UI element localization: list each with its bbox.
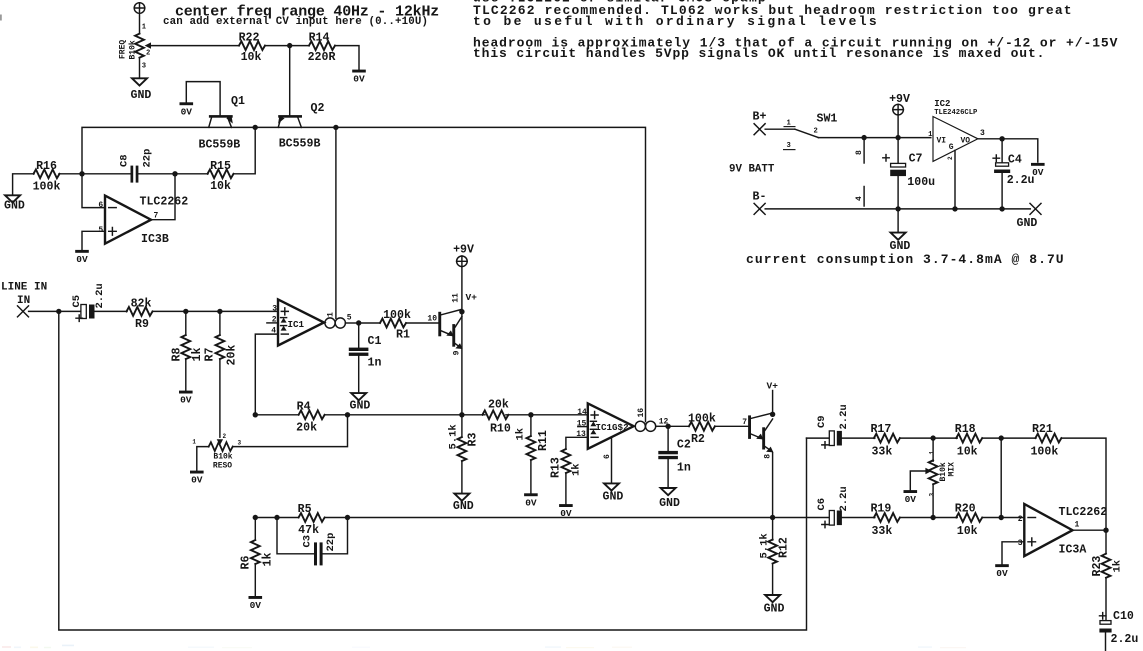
note: faint page remnants at bottom edge (2, 645, 966, 649)
wire node to R2 (668, 425, 689, 427)
node C7/B- (895, 206, 900, 211)
ground 0V below R6 (249, 596, 263, 611)
svg-text:B-: B- (753, 191, 767, 204)
svg-text:C2: C2 (677, 439, 691, 452)
wire switch to IC2 VI (818, 137, 930, 139)
ground 0V at IC2 out (1031, 163, 1045, 178)
resistor R17 33k (870, 423, 899, 459)
svg-text:4: 4 (855, 196, 864, 201)
node bias rail / IC1 pin1 (333, 125, 338, 130)
svg-text:GND: GND (1017, 217, 1038, 230)
connector stub pin 4 (855, 187, 864, 207)
svg-text:3: 3 (1018, 539, 1023, 548)
wire R21 to output node (1061, 438, 1106, 530)
wire C6 to R19 (842, 517, 875, 519)
svg-text:R9: R9 (135, 318, 149, 331)
wire IC2 output (978, 139, 1038, 162)
resistor R5 47k (298, 503, 325, 537)
resistor R18 10k (955, 423, 982, 459)
capacitor C6 2.2u (816, 486, 850, 527)
svg-text:IN: IN (17, 295, 30, 307)
ground 0V below IC3B (75, 250, 89, 265)
node C9 row / MIX top (930, 435, 935, 440)
svg-text:this circuit handles 5Vpp sign: this circuit handles 5Vpp signals OK unt… (473, 46, 1045, 61)
svg-text:2: 2 (223, 433, 227, 440)
resistor R16 100k (33, 160, 61, 194)
svg-text:TLE2426CLP: TLE2426CLP (934, 109, 978, 117)
wire bottom row left (255, 517, 829, 519)
wire RESO pin1 to 0V (197, 447, 209, 471)
wire LINE IN to C5 (29, 310, 81, 312)
node CV line / Q2 base (287, 43, 292, 48)
node R16/C8/IC3B (79, 171, 84, 176)
power +9V (889, 93, 910, 115)
node IC2 out / C4 (999, 136, 1004, 141)
wire IC3B output (151, 174, 175, 220)
svg-text:R5: R5 (298, 503, 312, 516)
wire C8 to R15 (138, 173, 208, 175)
node C4/B- (999, 206, 1004, 211)
svg-text:10: 10 (427, 314, 437, 323)
svg-text:R3: R3 (466, 433, 479, 447)
node bottom row / MIX bottom (930, 515, 935, 520)
resistor R10 20k (482, 398, 510, 435)
svg-text:R22: R22 (239, 32, 260, 45)
svg-text:GND: GND (764, 603, 785, 616)
capacitor C3 22p (277, 518, 348, 566)
svg-text:R21: R21 (1032, 423, 1053, 436)
wire R15 up to bias rail (234, 127, 256, 173)
ground GND left of R16 (4, 195, 25, 212)
svg-text:SW1: SW1 (817, 113, 838, 126)
resistor R20 10k (955, 503, 982, 539)
terminal CV input (134, 3, 145, 14)
svg-text:C9: C9 (816, 415, 828, 428)
potentiometer FREQ B10k (119, 24, 152, 71)
node bottom row / C3 left (274, 515, 279, 520)
power +9V above buffer (453, 243, 474, 266)
svg-text:G: G (949, 143, 954, 152)
node R9/R8 (183, 309, 188, 314)
wire R18 to R21 (982, 437, 1036, 439)
wire feedback box (59, 311, 807, 630)
note: small mark at left edge (0, 15, 2, 21)
svg-text:5: 5 (98, 226, 103, 235)
svg-text:R10: R10 (490, 422, 511, 435)
svg-text:1k: 1k (1112, 560, 1124, 573)
node bottom row / feedback (253, 515, 258, 520)
node buffer2 / R12 / bottom row (770, 515, 775, 520)
svg-text:2: 2 (947, 156, 954, 160)
svg-text:100u: 100u (907, 176, 935, 189)
svg-text:10k: 10k (957, 525, 978, 538)
wire Q2 base from CV node (289, 46, 291, 116)
ground 0V at MIX wiper (904, 490, 918, 505)
resistor R15 10k (208, 160, 234, 193)
node feedback box left (56, 309, 61, 314)
svg-text:Q1: Q1 (231, 95, 245, 108)
svg-text:R1: R1 (396, 329, 410, 342)
wire B- rail (765, 208, 1030, 210)
node buffer2 collector (770, 412, 775, 417)
svg-text:TLC2262: TLC2262 (1059, 506, 1108, 519)
op-amp IC3B TLC2262 (98, 196, 188, 246)
wire R19 to R20 (900, 517, 957, 519)
transistor buffer Q IC1 pins 10/11/9 (427, 292, 477, 355)
wire main bias rail (82, 127, 646, 421)
wire R1 to buffer (406, 322, 438, 324)
svg-text:R2: R2 (691, 433, 705, 446)
svg-text:1k: 1k (191, 348, 204, 362)
svg-text:11: 11 (452, 293, 461, 303)
resistor R13 1k (549, 437, 587, 504)
svg-text:3: 3 (272, 305, 277, 314)
svg-text:V+: V+ (466, 292, 478, 303)
ground 0V right of R14 (352, 70, 366, 85)
node IC1 out / C1 / R1 (356, 320, 361, 325)
node +9V rail (895, 135, 900, 140)
svg-text:20k: 20k (296, 421, 317, 434)
svg-text:C8: C8 (119, 154, 131, 167)
svg-text:2.2u: 2.2u (838, 486, 850, 511)
node bias rail / R15 (253, 125, 258, 130)
svg-text:R20: R20 (955, 503, 976, 516)
op-amp IC1 OTA (267, 299, 352, 345)
wire IC1 inverting input (255, 334, 278, 415)
svg-text:IC3A: IC3A (1059, 543, 1087, 556)
resistor R19 33k (870, 503, 899, 539)
svg-text:1k: 1k (571, 463, 583, 476)
svg-text:10k: 10k (957, 446, 978, 459)
svg-text:1: 1 (326, 312, 335, 317)
node C8/R15/IC3B out (172, 171, 177, 176)
ground 0V at RESO (190, 471, 204, 486)
resistor R4 20k (296, 400, 324, 434)
svg-text:2.2u: 2.2u (838, 404, 850, 429)
op-amp IC3A TLC2262 (1018, 504, 1108, 556)
node switch/stub8 (861, 135, 866, 140)
node middle row / RESO (345, 412, 350, 417)
wire IC3A non-inverting to 0V (1002, 542, 1024, 564)
svg-text:+9V: +9V (453, 243, 474, 256)
svg-text:GND: GND (350, 400, 371, 413)
capacitor C7 100u (883, 153, 935, 189)
svg-text:C7: C7 (909, 153, 923, 166)
capacitor C5 2.2u (71, 283, 106, 321)
potentiometer MIX B10k (910, 438, 956, 517)
svg-text:R4: R4 (297, 400, 311, 413)
svg-text:LINE IN: LINE IN (1, 282, 47, 294)
svg-text:3: 3 (142, 63, 146, 71)
wire GND to R16 (13, 174, 34, 195)
svg-text:FREQ: FREQ (119, 40, 128, 59)
wire IC3A output (1073, 529, 1107, 531)
transistor buffer2 IC1 pins 7/8 (742, 413, 773, 459)
terminal B+ (753, 111, 767, 135)
svg-text:current consumption 3.7-4.8mA: current consumption 3.7-4.8mA @ 8.7U (746, 252, 1065, 267)
svg-text:22p: 22p (325, 533, 337, 552)
wire IC3B inverting input (82, 174, 105, 208)
svg-text:8: 8 (855, 150, 864, 155)
svg-text:9V BATT: 9V BATT (729, 164, 775, 176)
wire R17 to R18 (900, 437, 957, 439)
potentiometer RESO B10k (192, 433, 241, 471)
svg-text:16: 16 (637, 408, 646, 418)
capacitor C10 2.2u (1099, 610, 1138, 651)
svg-text:R7: R7 (204, 348, 217, 362)
svg-text:IC2: IC2 (934, 99, 950, 109)
svg-text:1: 1 (928, 131, 933, 139)
wire R9 to IC1 pin3 (153, 310, 279, 312)
svg-text:33k: 33k (871, 525, 892, 538)
svg-text:R11: R11 (537, 430, 550, 451)
ground below C7 (890, 233, 911, 253)
svg-text:B+: B+ (753, 111, 767, 124)
ground 0V below R8 (179, 391, 193, 406)
svg-text:2.2u: 2.2u (1007, 174, 1035, 187)
wire pot wiper to R22 (151, 45, 239, 47)
node output / R23 (1103, 528, 1108, 533)
wire C9 to R17 (842, 437, 875, 439)
svg-text:to be useful with ordinary sig: to be useful with ordinary signal levels (473, 14, 879, 29)
wire B+ to switch (765, 128, 795, 130)
connector stub pin 8 (855, 138, 864, 163)
ground GND below C1 (350, 393, 371, 413)
wire R22 to R14 (265, 45, 309, 47)
svg-text:C4: C4 (1008, 154, 1022, 167)
svg-text:TLC2262: TLC2262 (140, 196, 189, 209)
svg-text:BC559B: BC559B (199, 139, 241, 152)
svg-text:B10k: B10k (213, 453, 232, 462)
svg-text:RESO: RESO (213, 462, 232, 471)
svg-text:20k: 20k (225, 345, 238, 366)
svg-text:R6: R6 (240, 556, 253, 570)
svg-text:20k: 20k (488, 398, 509, 411)
transistor Q1 BC559B (186, 82, 245, 152)
svg-text:R13: R13 (549, 457, 562, 478)
wire IC2 G pin to B- (954, 150, 956, 209)
resistor R9 82k (127, 298, 153, 331)
svg-text:C5: C5 (71, 295, 83, 308)
wire node to R1 (359, 322, 380, 324)
svg-text:R15: R15 (210, 160, 231, 173)
svg-text:14: 14 (577, 408, 587, 417)
svg-text:BC559B: BC559B (279, 138, 321, 151)
capacitor C8 22p (119, 149, 154, 183)
svg-text:IC3B: IC3B (141, 233, 169, 246)
svg-text:22p: 22p (142, 149, 154, 168)
svg-text:10k: 10k (210, 180, 231, 193)
svg-text:100k: 100k (1030, 446, 1058, 459)
svg-text:R23: R23 (1091, 556, 1104, 577)
node buffer collector rail (459, 309, 464, 314)
node IC2 G/B- (952, 206, 957, 211)
wire R14 to 0V (335, 46, 359, 70)
svg-text:GND: GND (453, 500, 474, 513)
svg-text:100k: 100k (33, 181, 61, 194)
svg-text:IC1G$2: IC1G$2 (596, 422, 629, 433)
wire IC1G$2 output (656, 425, 668, 427)
svg-text:C6: C6 (816, 498, 828, 511)
node middle row / R3 (459, 412, 464, 417)
svg-text:10k: 10k (241, 51, 262, 64)
svg-text:R19: R19 (870, 503, 891, 516)
pin 3 label SW1 open contact (783, 142, 796, 150)
ground GND below R12 (764, 595, 785, 616)
svg-text:VI: VI (937, 137, 947, 146)
svg-text:1: 1 (192, 439, 196, 446)
svg-text:R8: R8 (171, 348, 184, 362)
wire +9V rail down (461, 267, 463, 415)
resistor R3 5.1k (447, 415, 479, 494)
svg-text:1n: 1n (368, 357, 382, 370)
svg-text:1k: 1k (514, 428, 526, 441)
svg-text:5.1k: 5.1k (447, 424, 459, 449)
svg-text:2: 2 (146, 50, 150, 58)
svg-text:GND: GND (603, 491, 624, 504)
op-amp IC2 TLE2426CLP rail splitter (928, 99, 985, 161)
wire R16 to C8 (59, 173, 130, 175)
svg-text:R16: R16 (36, 160, 57, 173)
svg-text:100k: 100k (688, 412, 716, 425)
svg-text:Q2: Q2 (311, 102, 325, 115)
svg-text:82k: 82k (131, 298, 152, 311)
svg-text:GND: GND (890, 240, 911, 253)
svg-text:8: 8 (763, 454, 772, 459)
svg-text:1: 1 (929, 451, 936, 455)
node IC1G$2 out / C2 / R2 (665, 424, 670, 429)
node pin2 / vertical (999, 515, 1004, 520)
ground GND below C2 (659, 488, 680, 510)
svg-text:R18: R18 (955, 423, 976, 436)
resistor R7 20k (204, 311, 239, 437)
wire buffer2 emitter down (772, 453, 774, 518)
capacitor C1 1n (349, 323, 382, 393)
resistor R2 100k (688, 412, 716, 446)
pin 1 label SW1 (784, 119, 796, 127)
svg-text:100k: 100k (383, 309, 411, 322)
resistor R14 220R (308, 32, 336, 65)
ground GND below IC1G$2 (603, 483, 624, 503)
svg-text:R17: R17 (870, 423, 891, 436)
svg-text:5.1k: 5.1k (758, 533, 770, 558)
svg-text:33k: 33k (871, 446, 892, 459)
resistor R23 1k (1091, 530, 1124, 620)
terminal B- (753, 191, 767, 215)
svg-text:3: 3 (929, 493, 936, 497)
wire IC1G$2 pin6 to GND (611, 437, 613, 483)
svg-text:1n: 1n (677, 462, 691, 475)
wire R20 to IC3A pin2 (982, 517, 1024, 519)
svg-text:7: 7 (742, 418, 747, 427)
terminal LINE IN (1, 282, 47, 317)
svg-text:GND: GND (659, 497, 680, 510)
capacitor C4 2.2u (993, 139, 1034, 209)
wire R2 to buffer2 (715, 425, 748, 427)
wire IC3B non-inverting input to 0V (82, 231, 105, 249)
ground 0V below R11 (524, 493, 538, 508)
svg-text:1k: 1k (261, 553, 274, 567)
resistor R6 1k (240, 518, 275, 596)
svg-text:2: 2 (1018, 515, 1023, 524)
svg-text:B10k: B10k (129, 40, 138, 59)
svg-text:C10: C10 (1113, 610, 1134, 623)
svg-text:GND: GND (4, 200, 25, 213)
svg-text:C3: C3 (301, 535, 313, 548)
wire CV to pot (139, 13, 141, 33)
op-amp IC1G$2 OTA (576, 403, 668, 448)
wire pot to GND (139, 58, 141, 78)
svg-text:3: 3 (787, 142, 791, 150)
power V+ label above buffer2 (767, 381, 779, 415)
wire IC1 pin1 bias (335, 127, 337, 318)
wire C7 to B- rail (897, 176, 899, 232)
svg-text:220R: 220R (308, 51, 336, 64)
svg-text:5: 5 (347, 314, 352, 323)
node R9/R7 (217, 309, 222, 314)
svg-text:1: 1 (1075, 520, 1080, 529)
svg-text:MIX: MIX (947, 462, 956, 477)
resistor R22 10k (239, 32, 265, 65)
ground GND below FREQ pot (131, 78, 152, 102)
svg-text:R14: R14 (309, 32, 330, 45)
resistor R21 100k (1030, 423, 1061, 459)
terminal GND right (1017, 203, 1042, 230)
resistor R8 1k (171, 311, 205, 390)
svg-text:2: 2 (814, 128, 818, 136)
resistor R1 100k (380, 309, 411, 342)
node middle row / pin4 feedback (253, 412, 258, 417)
ground 0V below R13 (559, 504, 573, 519)
svg-text:2.2u: 2.2u (1111, 633, 1139, 646)
node middle row / R11 (528, 412, 533, 417)
wire IC1 output (345, 322, 358, 324)
svg-text:C1: C1 (368, 335, 382, 348)
svg-text:9: 9 (452, 350, 461, 355)
resistor R12 5.1k (758, 518, 790, 595)
svg-text:R12: R12 (778, 537, 791, 558)
svg-text:6: 6 (98, 201, 103, 210)
ground 0V at Q1 emitter (180, 102, 194, 117)
svg-text:2.2u: 2.2u (94, 283, 106, 308)
svg-text:can add external CV input here: can add external CV input here (0..+10U) (163, 16, 428, 28)
svg-text:VO: VO (961, 137, 971, 146)
resistor R11 1k (514, 415, 550, 493)
svg-text:1: 1 (142, 24, 147, 32)
node bottom row / C3 right (345, 515, 350, 520)
svg-text:3: 3 (238, 440, 242, 447)
ground 0V below IC3A (995, 564, 1009, 579)
wire middle row (255, 414, 588, 416)
node R18/R21/vertical (999, 435, 1004, 440)
wire R18 node down to pin2 node (1000, 438, 1002, 517)
wire +9V down (897, 115, 899, 163)
svg-text:GND: GND (131, 89, 152, 102)
ground GND below R3 (453, 494, 474, 513)
wire C5 to R9 (95, 310, 128, 312)
capacitor C9 2.2u (807, 404, 850, 448)
transistor Q2 BC559B (278, 102, 324, 151)
svg-text:3: 3 (980, 129, 985, 138)
svg-text:6: 6 (603, 454, 612, 459)
wire RESO pin3 to middle row (233, 415, 348, 447)
switch SW1 (795, 113, 838, 138)
svg-text:IC1: IC1 (288, 319, 305, 330)
capacitor C2 1n (658, 426, 691, 487)
